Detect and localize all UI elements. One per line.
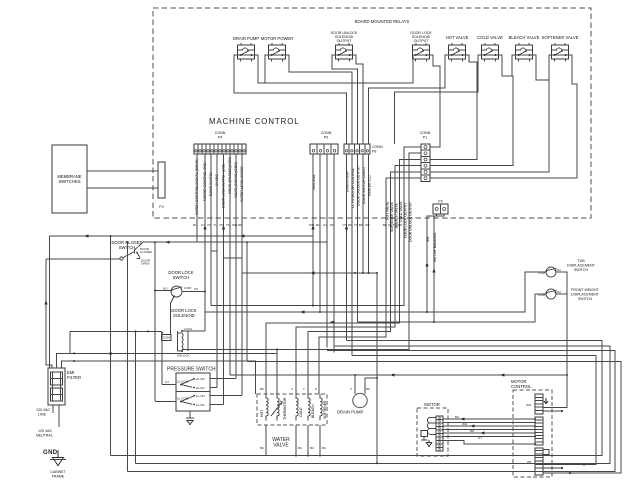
wire R8 right to P1 pin6 [430,55,577,178]
wire drain pump left up [354,375,356,394]
svg-text:DOOR UNLOCK OUTPUT: DOOR UNLOCK OUTPUT [409,202,413,242]
tub displacement switch [538,267,562,277]
relay R2 MOTOR POWER [261,36,294,62]
wire EMI bottom 120VAC LINE stub [52,405,54,413]
svg-text:SWITCHES: SWITCHES [58,179,80,184]
P3 connector [433,204,448,214]
WH connector [526,394,548,414]
svg-text:PRESSURE SWITCH: PRESSURE SWITCH [167,367,216,373]
CONN P4 connector strip [194,144,246,154]
wire P4 c1 [196,154,198,242]
svg-text:SW: SW [426,236,430,242]
svg-text:COM: COM [538,271,546,275]
svg-text:V: V [350,387,352,391]
svg-text:CLOSED: CLOSED [140,250,153,254]
svg-text:MOTOR: MOTOR [424,402,440,407]
P2 connector [158,162,165,198]
wire R5 left to P8 pin5 [369,55,449,144]
svg-text:FRAME: FRAME [52,475,65,479]
nested loop 1 to 2M [247,362,621,474]
wire R2 right to P8 pin2 [286,55,353,144]
mesh: y273 bus [242,272,377,274]
svg-text:SOFTENER: SOFTENER [323,400,327,419]
wire P1 pin6 left to hot valve [319,178,421,394]
svg-text:SWITCH: SWITCH [173,275,190,280]
svg-text:COLD: COLD [299,407,303,417]
wire 1L-COM left [155,401,176,403]
svg-text:P2: P2 [159,205,163,209]
wire 2L-COM left [162,384,176,386]
svg-text:SWITCH: SWITCH [574,268,589,272]
svg-text:T: T [303,387,305,391]
wire AC neutral rail into EMI [49,236,51,365]
wire EMI to neutral bus [62,361,256,394]
front weight displacement switch [538,289,562,299]
svg-text:COM: COM [184,286,192,290]
svg-text:NO: NO [163,287,168,291]
wire P4 c6 [229,154,231,375]
wire P1 pin3 left to cold valve [266,159,421,394]
wire membrane to P2 upper [87,170,158,172]
svg-text:HOT VALVE: HOT VALVE [446,35,469,40]
wire P4 c4 [216,154,218,388]
wire door closed NO to y242 bus [135,242,144,250]
nested loop 5 to 2M [352,356,596,465]
rail x155 down to pressure 1L-COM [154,242,156,401]
wire front NC down to y375 [556,294,567,375]
svg-text:TUB: TUB [577,259,585,263]
CONN P1 connector strip [421,144,430,182]
svg-text:BLEACH: BLEACH [311,404,315,418]
wire P1 pin1 left down y332 bus [211,147,421,306]
svg-text:HOT: HOT [260,410,264,417]
relay R6 COLD VALVE [477,35,503,62]
mesh: y322 displacement feed B [358,294,547,322]
svg-text:2L-COM: 2L-COM [177,380,189,384]
membrane switches box [52,145,87,213]
wire solenoid UNLOCK to P4 c5 [182,349,277,351]
mesh: y258 link [224,257,243,259]
svg-text:CONN: CONN [215,131,226,135]
wire R6 left down [395,55,482,144]
svg-text:DRAIN PUMP: DRAIN PUMP [337,410,363,415]
svg-text:P3: P3 [438,200,442,204]
svg-text:120 VAC: 120 VAC [38,429,53,433]
svg-text:PK: PK [330,223,334,227]
water valve dashed box [257,394,327,425]
svg-text:OPEN: OPEN [141,262,150,266]
rail x247 from y241 to 1L-NO [246,242,248,361]
relay R3 DOOR UNLOCK SOLENOID OUTPUT [331,31,358,62]
svg-text:FILTER: FILTER [67,375,81,380]
hot valve coil [260,394,268,420]
relay R5 HOT VALVE [446,35,469,62]
svg-text:YL: YL [213,223,217,227]
2M connector [527,448,549,475]
wire P4 c7 [235,154,237,379]
door lock switch [171,286,182,297]
door lock solenoid [162,327,193,358]
wire 2L-NO right to P4 c7 [210,378,236,380]
relay R8 SOFTENER VALVE [542,35,579,62]
svg-text:P4: P4 [218,136,222,140]
svg-text:1L-NC: 1L-NC [196,403,206,407]
bleach valve coil [308,394,315,420]
svg-text:V: V [291,387,293,391]
svg-text:BU: BU [316,223,320,227]
svg-text:VT: VT [207,223,211,227]
wire tub NC to front NC rail [556,272,567,294]
nested loop 2 [127,351,615,472]
wire R3 right to P8 pin4 [353,55,364,144]
svg-text:BK: BK [383,223,387,227]
svg-text:1L-NO: 1L-NO [196,394,206,398]
svg-text:DISPLACEMENT: DISPLACEMENT [571,293,600,297]
CONN P8 connector strip [344,144,370,154]
nested loop 3 [136,346,610,464]
wire P3 pin2 to front displacement [434,214,444,322]
cabinet frame ground symbol [50,450,66,466]
wire door lock sw left [155,290,172,292]
wire P3 pin1 to tub displacement [427,214,437,312]
wire door lock sw COM right to P4 c2 [182,291,205,293]
wire P1 pin5 left to softener valve [308,172,421,394]
svg-text:BOARD MOUNTED RELAYS: BOARD MOUNTED RELAYS [355,19,410,24]
pressure switch ground [186,411,194,425]
cold valve coil [296,394,303,420]
svg-text:GY: GY [323,223,327,227]
svg-text:2L-NC: 2L-NC [196,386,206,390]
svg-text:OUTPUT: OUTPUT [414,39,430,43]
svg-text:COLD VALVE: COLD VALVE [399,200,403,222]
wire P4 c5 [223,154,225,405]
svg-text:CONTROL: CONTROL [511,384,532,389]
motor ground arrow [426,440,432,447]
loop3 drain pump branch vertical [376,273,378,463]
wire EMI bottom neutral stub [58,405,60,427]
wires WH right [543,410,562,412]
svg-text:DOOR LOCK OUTPUT: DOOR LOCK OUTPUT [404,203,408,238]
mesh: y241 bus [143,241,327,243]
mesh: y375 L1 bus to motor control [230,374,567,376]
svg-text:GND: GND [43,450,58,456]
wire AC line rail into EMI [46,259,52,368]
svg-text:P8: P8 [372,150,376,154]
svg-text:BU: BU [310,446,314,450]
wire P8 c2 [351,154,353,356]
svg-text:DRAIN PUMP: DRAIN PUMP [233,36,259,41]
svg-text:TN: TN [393,223,397,227]
nested loop 3 left vertical [135,331,137,463]
svg-text:UNLOCK: UNLOCK [177,354,190,358]
svg-text:BU: BU [455,415,459,419]
svg-text:BU: BU [298,446,302,450]
drain pump [337,393,367,414]
svg-text:CABINET: CABINET [50,470,66,474]
svg-text:NEUTRAL: NEUTRAL [36,434,53,438]
svg-text:HOT VALVE: HOT VALVE [386,201,390,220]
wire P9 c4 [333,154,335,353]
svg-text:OUT OF BALANCE: OUT OF BALANCE [433,232,437,262]
wire AC line to door closed switch [46,258,120,260]
wires 2M right [583,463,585,465]
wire P1 pin2 left to door unlock solenoid [277,153,421,349]
svg-text:SOFTENER VALVE: SOFTENER VALVE [390,201,394,232]
nested loop 4 [111,340,602,455]
wire R5 right to P1 pin3 [430,55,477,159]
svg-text:LOCK: LOCK [184,327,192,331]
svg-text:MACHINE CONTROL: MACHINE CONTROL [209,117,300,126]
thermistor [271,394,287,420]
wire P1 pin4 left to bleach valve [296,166,421,394]
mid connector [535,417,543,445]
svg-text:1L-COM: 1L-COM [177,397,189,401]
wire P9 c1 [312,154,314,306]
wire R1 left to P8 pin1 [234,55,347,144]
wire P4 c8 [241,154,243,396]
svg-text:BU: BU [366,387,370,391]
y331.4 junction dot [147,330,149,332]
wire R6 right to P1 pin4 [430,55,513,166]
svg-text:MOTOR POWER: MOTOR POWER [261,36,294,41]
svg-text:TN: TN [226,223,230,227]
mesh: y251 link [211,251,217,306]
svg-text:SWITCH: SWITCH [578,297,593,301]
svg-text:2L-NO: 2L-NO [196,377,206,381]
svg-text:DISPLACEMENT: DISPLACEMENT [567,264,596,268]
svg-text:COM: COM [163,336,171,340]
wire P8 c1 [346,154,348,340]
svg-text:BU: BU [260,446,264,450]
wire R3 left to P8 pin3 [332,55,358,144]
svg-text:THERMISTOR: THERMISTOR [283,397,287,420]
svg-text:VT: VT [343,223,347,227]
relay R1 DRAIN PUMP [233,36,259,62]
door closed switch [120,250,140,261]
svg-text:P1: P1 [423,136,427,140]
pressure switch [176,373,210,411]
wire door lock switch to solenoid COM [171,296,174,334]
motor control dashed box [513,390,552,477]
svg-text:BLEACH VALVE: BLEACH VALVE [509,35,540,40]
wire solenoid LOCK to P4 c2 [182,330,205,332]
nested loop 2 left vertical [126,242,128,472]
wire R7 right / R8 left to P1 pin5 [430,55,552,172]
svg-text:CONN: CONN [321,131,332,135]
svg-text:BK: BK [260,387,264,391]
svg-text:P9: P9 [324,136,328,140]
wire P8 c4 [362,154,364,273]
svg-text:SOLENOID: SOLENOID [173,313,195,318]
svg-text:CONN: CONN [420,131,431,135]
motor connector [436,416,443,451]
svg-text:COM: COM [538,293,546,297]
svg-text:SOFTENER VALVE: SOFTENER VALVE [542,35,579,40]
wire y375 down to WH connector [543,375,567,408]
wire AC line bus to solenoid COM [70,330,162,332]
wire P4 c2 [204,154,206,331]
svg-text:WH: WH [526,403,531,407]
softener valve coil [320,394,327,420]
mesh: y234 neutral bus [50,235,314,237]
svg-text:P: P [315,387,317,391]
motor windings [421,418,436,441]
wire P4 c3 [210,154,212,306]
wire 1L-NC stub [210,404,224,406]
wire R1 right / R2 left bus to R4 left [255,55,414,83]
svg-text:BU: BU [322,446,326,450]
svg-text:BK: BK [359,223,363,227]
wire EMI to L1 bus [57,353,278,368]
svg-text:LINE: LINE [38,413,47,417]
svg-text:TN: TN [354,223,358,227]
svg-text:BU: BU [193,223,197,227]
motor dashed box [417,408,448,456]
svg-text:VALVE: VALVE [273,443,289,449]
motor wires to motor control [443,418,536,420]
wire 1L-NO right [210,395,242,397]
svg-text:GY: GY [478,436,482,440]
machine control dashed enclosure [153,8,591,218]
wire P9 c2 [319,154,321,312]
EMI filter [48,368,65,405]
svg-text:FRONT WEIGHT: FRONT WEIGHT [571,288,599,292]
wire P8 c5 [368,154,370,273]
rail x162 from y332 to 2L-COM [161,333,163,385]
svg-text:120 VAC: 120 VAC [36,408,51,412]
wire membrane to P2 lower [87,187,158,189]
wire P8 c3 [357,154,359,322]
wire P9 c3 [326,154,328,348]
valve bottom return wires [265,425,267,456]
svg-text:WH: WH [462,422,467,426]
relay R7 BLEACH VALVE [509,35,540,62]
svg-text:PU: PU [194,287,198,291]
mesh: y312 displacement feed A [205,272,546,312]
nested loop 4 left vertical [110,236,112,456]
wire tie marks [44,225,504,435]
svg-text:GY: GY [165,380,169,384]
svg-text:COLD VALVE: COLD VALVE [477,35,503,40]
wire 2L-NC right to P4 c4 [210,387,217,389]
CONN P9 connector strip [310,144,338,154]
wire R4 right to P1 pin1 [430,55,441,147]
svg-text:OUTPUT: OUTPUT [337,39,353,43]
svg-text:PK: PK [220,223,224,227]
relay R4 DOOR LOCK SOLENOID OUTPUT [410,31,432,62]
svg-text:CONN: CONN [372,145,383,149]
svg-text:WH: WH [232,223,237,227]
wire drain pump right up [365,378,377,394]
